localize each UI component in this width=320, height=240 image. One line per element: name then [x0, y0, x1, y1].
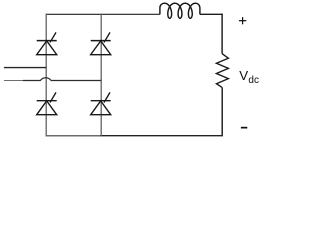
- right leg wire lower: [221, 87, 223, 136]
- middle bridge leg wire: [100, 14, 102, 137]
- label Vdc main V: [239, 68, 248, 83]
- label Vdc subscript dc: [248, 75, 259, 86]
- thyristor T3 top-right: [91, 32, 111, 54]
- AC input upper wire: [4, 67, 46, 69]
- AC input lower wire left segment: [4, 80, 23, 82]
- bottom rail wire: [100, 135, 223, 137]
- right leg wire upper: [221, 14, 223, 54]
- thyristor T1 top-left: [37, 32, 57, 54]
- minus terminal sign: [241, 127, 247, 129]
- wire inductor to top-right corner: [200, 13, 223, 15]
- bottom rail wire left part: [46, 135, 100, 137]
- left bridge leg wire: [45, 14, 47, 137]
- top rail wire: [46, 13, 160, 15]
- thyristor T2 bottom-right: [91, 92, 111, 114]
- thyristor T4 bottom-left: [37, 92, 57, 114]
- AC input lower wire with hop over left leg: [23, 78, 101, 81]
- resistor R load: [216, 54, 228, 88]
- inductor L: [160, 3, 200, 18]
- plus terminal sign: [239, 17, 246, 24]
